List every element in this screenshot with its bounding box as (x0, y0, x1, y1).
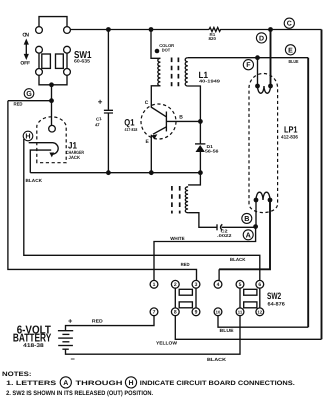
svg-text:60-635: 60-635 (74, 58, 90, 63)
svg-text:5: 5 (239, 282, 242, 288)
svg-text:BLACK: BLACK (207, 357, 227, 362)
svg-text:INDICATE CIRCUIT BOARD CONNECT: INDICATE CIRCUIT BOARD CONNECTIONS. (140, 380, 295, 387)
svg-text:7: 7 (153, 310, 156, 316)
svg-text:C: C (145, 100, 149, 106)
svg-text:11: 11 (238, 309, 243, 314)
svg-text:12: 12 (257, 309, 262, 314)
svg-text:+: + (68, 316, 73, 325)
svg-text:F: F (246, 62, 251, 69)
svg-text:JACK: JACK (69, 155, 81, 160)
svg-text:64-876: 64-876 (268, 302, 286, 308)
svg-text:ON: ON (22, 33, 29, 39)
svg-text:56-56: 56-56 (205, 149, 219, 154)
svg-text:9: 9 (195, 310, 198, 316)
svg-text:BLACK: BLACK (230, 257, 246, 262)
svg-text:412-836: 412-836 (281, 135, 298, 141)
svg-text:D: D (259, 35, 264, 42)
svg-text:2: 2 (174, 282, 177, 288)
svg-text:418-38: 418-38 (23, 343, 44, 349)
svg-text:J1: J1 (68, 141, 77, 151)
svg-text:SW2: SW2 (267, 291, 281, 301)
svg-text:A: A (63, 380, 68, 387)
svg-text:8: 8 (174, 310, 177, 316)
svg-text:1: 1 (153, 282, 156, 288)
svg-text:E: E (288, 47, 293, 54)
svg-text:3: 3 (195, 282, 198, 288)
svg-text:RED: RED (181, 262, 191, 267)
svg-text:H: H (128, 380, 133, 387)
svg-text:RED: RED (14, 101, 24, 106)
svg-text:6: 6 (258, 282, 261, 288)
svg-text:A: A (246, 230, 251, 239)
svg-text:BLUE: BLUE (220, 328, 234, 333)
svg-text:BLUE: BLUE (289, 59, 299, 64)
svg-text:C: C (287, 21, 292, 28)
svg-text:RED: RED (92, 318, 104, 323)
svg-text:820: 820 (209, 36, 217, 41)
svg-text:1. LETTERS: 1. LETTERS (6, 380, 57, 387)
svg-text:10: 10 (216, 309, 221, 314)
svg-text:+: + (98, 98, 103, 107)
svg-text:OFF: OFF (20, 60, 30, 66)
svg-text:BLACK: BLACK (26, 178, 43, 183)
svg-text:2. SW2 IS SHOWN IN ITS RELEASE: 2. SW2 IS SHOWN IN ITS RELEASED (OUT) PO… (6, 390, 153, 397)
svg-text:417-818: 417-818 (125, 127, 138, 132)
svg-text:.0022: .0022 (217, 233, 232, 238)
svg-text:LP1: LP1 (284, 125, 298, 135)
svg-text:WHITE: WHITE (170, 236, 185, 241)
svg-text:DOT: DOT (162, 47, 171, 52)
svg-text:−: − (71, 354, 76, 363)
svg-text:4: 4 (217, 282, 220, 288)
svg-text:B: B (179, 114, 183, 120)
svg-text:H: H (25, 132, 30, 141)
svg-text:NOTES:: NOTES: (2, 371, 32, 378)
svg-text:THROUGH: THROUGH (76, 380, 123, 387)
svg-text:YELLOW: YELLOW (156, 341, 178, 346)
svg-text:B: B (244, 214, 249, 223)
svg-text:40-1949: 40-1949 (199, 78, 221, 83)
svg-text:G: G (26, 89, 32, 98)
